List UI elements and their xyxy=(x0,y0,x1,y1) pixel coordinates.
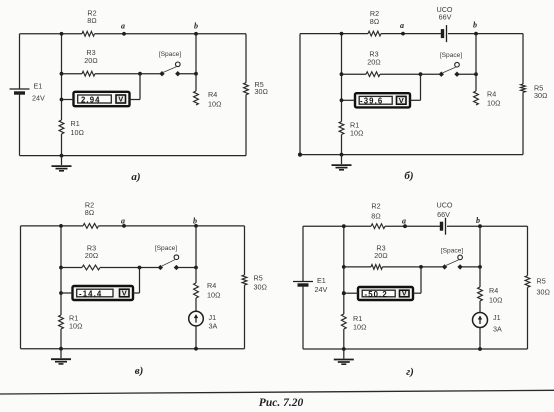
wire top left segment xyxy=(21,225,84,227)
svg-text:30Ω: 30Ω xyxy=(537,288,551,297)
wire bottom xyxy=(20,155,247,157)
wire R4 to J1 xyxy=(195,298,197,311)
wire inner vertical lower xyxy=(60,134,64,158)
svg-text:20Ω: 20Ω xyxy=(85,251,99,260)
svg-text:b: b xyxy=(473,21,477,30)
label g) xyxy=(406,366,414,378)
wire voltmeter right lead xyxy=(413,267,421,293)
wire top right segment xyxy=(95,33,247,35)
resistor R1 xyxy=(339,121,363,138)
voltage source UCO xyxy=(437,5,453,42)
wire right side upper xyxy=(527,226,529,275)
wire left side upper xyxy=(19,34,21,89)
svg-text:V: V xyxy=(118,95,123,104)
wire switch to node xyxy=(462,265,482,269)
svg-text:10Ω: 10Ω xyxy=(69,322,83,331)
voltmeter U1 xyxy=(358,287,413,300)
resistor R2 xyxy=(368,9,381,36)
wire right side lower xyxy=(527,287,529,349)
wire right side upper xyxy=(522,34,524,84)
svg-text:8Ω: 8Ω xyxy=(85,208,95,217)
wire voltmeter left lead xyxy=(342,99,356,101)
circuit v) bottom-left xyxy=(21,201,268,378)
svg-text:J1: J1 xyxy=(493,313,501,322)
resistor R3 xyxy=(82,48,98,76)
wire R3 row left xyxy=(342,73,367,75)
svg-text:24V: 24V xyxy=(32,94,45,103)
svg-text:20Ω: 20Ω xyxy=(84,56,98,65)
resistor R2 xyxy=(371,202,385,229)
resistor R4 xyxy=(194,281,221,300)
svg-text:10Ω: 10Ω xyxy=(489,296,503,305)
wire R4 to J1 xyxy=(479,301,481,313)
svg-text:E1: E1 xyxy=(317,276,326,285)
wire inner vertical upper xyxy=(342,224,346,314)
wire voltmeter right lead xyxy=(130,74,141,100)
svg-text:[Space]: [Space] xyxy=(155,245,178,252)
wire voltmeter left lead xyxy=(61,292,73,294)
resistor R3 xyxy=(371,244,388,270)
wire voltmeter left lead xyxy=(342,291,358,295)
wire R3 row left xyxy=(344,266,371,268)
resistor R5 xyxy=(525,276,550,297)
svg-text:20Ω: 20Ω xyxy=(367,58,381,67)
resistor R2 xyxy=(83,201,99,229)
svg-text:10Ω: 10Ω xyxy=(71,128,85,137)
label a) xyxy=(131,171,140,183)
svg-text:b: b xyxy=(193,217,197,226)
svg-text:10Ω: 10Ω xyxy=(207,291,221,300)
svg-text:a: a xyxy=(402,217,406,226)
svg-text:8Ω: 8Ω xyxy=(371,212,381,221)
node b xyxy=(476,216,482,228)
svg-text:R1: R1 xyxy=(71,119,80,128)
node b xyxy=(473,21,478,36)
svg-text:3A: 3A xyxy=(209,322,218,331)
svg-text:a: a xyxy=(400,21,404,30)
svg-text:2.94: 2.94 xyxy=(81,95,101,104)
svg-text:-14.4: -14.4 xyxy=(79,290,102,299)
wire right side lower xyxy=(245,95,247,156)
svg-text:[Space]: [Space] xyxy=(159,51,182,58)
voltmeter U1 xyxy=(73,286,134,300)
svg-text:10Ω: 10Ω xyxy=(208,100,222,109)
svg-text:30Ω: 30Ω xyxy=(534,91,548,100)
svg-text:а): а) xyxy=(131,171,140,183)
wire inner vertical lower xyxy=(340,135,344,157)
wire bottom xyxy=(303,348,528,350)
wire top segment 3 xyxy=(447,225,528,227)
wire voltmeter right lead xyxy=(410,74,421,100)
resistor R4 xyxy=(478,286,503,305)
current source J1 xyxy=(189,311,218,330)
wire inner vertical upper xyxy=(59,224,63,315)
svg-text:[Space]: [Space] xyxy=(440,52,463,59)
svg-text:E1: E1 xyxy=(34,82,43,91)
circuit a) top-left xyxy=(10,9,269,184)
node a xyxy=(121,22,126,36)
resistor R4 xyxy=(194,90,222,109)
wire bottom xyxy=(21,348,245,350)
svg-text:Рис. 7.20: Рис. 7.20 xyxy=(259,397,304,409)
svg-text:б): б) xyxy=(404,170,413,182)
wire voltmeter right lead xyxy=(133,268,140,294)
ground xyxy=(332,155,352,170)
svg-text:в): в) xyxy=(135,365,144,377)
battery E1 xyxy=(293,276,327,294)
svg-text:66V: 66V xyxy=(439,13,452,22)
wire switch to node xyxy=(180,72,198,76)
wire voltmeter left lead xyxy=(62,99,74,101)
resistor R3 xyxy=(82,244,100,270)
wire top segment 2 xyxy=(385,225,440,227)
wire node b vertical xyxy=(195,34,197,91)
wire top right segment xyxy=(99,225,245,227)
wire right side lower xyxy=(522,92,524,154)
svg-text:3A: 3A xyxy=(493,325,502,334)
switch [Space] xyxy=(439,52,463,77)
wire node b vertical xyxy=(475,34,477,91)
wire left side upper xyxy=(302,226,304,281)
svg-text:a: a xyxy=(121,217,125,226)
wire R3 row to switch xyxy=(380,72,439,76)
wire switch to node xyxy=(459,72,478,76)
wire bottom xyxy=(298,153,523,157)
switch [Space] xyxy=(155,245,179,270)
resistor R1 xyxy=(59,314,83,331)
svg-text:R4: R4 xyxy=(487,90,496,99)
svg-text:V: V xyxy=(122,288,127,297)
svg-text:b: b xyxy=(194,22,198,31)
svg-text:R5: R5 xyxy=(254,274,263,283)
svg-text:R5: R5 xyxy=(537,277,546,286)
svg-text:20Ω: 20Ω xyxy=(374,251,388,260)
wire node b vertical xyxy=(195,226,197,283)
svg-text:30Ω: 30Ω xyxy=(254,283,268,292)
svg-text:8Ω: 8Ω xyxy=(370,17,380,26)
resistor R2 xyxy=(82,9,97,37)
voltmeter U1 xyxy=(74,92,130,106)
wire left side xyxy=(20,226,22,349)
svg-text:10Ω: 10Ω xyxy=(350,129,364,138)
wire R3 row left xyxy=(62,73,83,75)
ground xyxy=(51,349,71,364)
svg-text:R4: R4 xyxy=(489,286,498,295)
wire left side lower xyxy=(19,94,21,156)
current source J1 xyxy=(473,313,502,334)
wire left side lower xyxy=(302,286,304,350)
wire inner vertical upper xyxy=(340,32,344,122)
ground xyxy=(52,156,72,171)
svg-text:R4: R4 xyxy=(207,281,216,290)
wire inner vertical upper xyxy=(60,32,64,120)
wire top segment 3 xyxy=(448,33,523,35)
wire inner vertical lower xyxy=(59,329,63,351)
resistor R1 xyxy=(341,314,366,332)
switch [Space] xyxy=(441,247,464,269)
wire R3 row to switch xyxy=(95,72,160,76)
svg-text:24V: 24V xyxy=(315,285,328,294)
svg-text:UCO: UCO xyxy=(437,201,453,210)
caption Fig 7.20 xyxy=(259,397,304,409)
svg-text:8Ω: 8Ω xyxy=(87,16,97,25)
svg-text:66V: 66V xyxy=(437,210,450,219)
wire J1 to bottom xyxy=(478,328,482,351)
svg-text:30Ω: 30Ω xyxy=(255,87,269,96)
resistor R4 xyxy=(474,90,501,108)
resistor R5 xyxy=(521,84,548,101)
resistor R5 xyxy=(242,274,267,292)
caption rule xyxy=(0,390,554,394)
node a xyxy=(121,217,126,228)
svg-text:10Ω: 10Ω xyxy=(353,323,367,332)
svg-text:г): г) xyxy=(406,366,414,378)
node a xyxy=(402,217,407,229)
wire right side lower xyxy=(244,285,246,349)
ground xyxy=(334,349,354,364)
node b xyxy=(194,22,198,36)
circuit g) bottom-right xyxy=(293,201,550,379)
voltage source UCO xyxy=(437,201,453,235)
svg-text:a: a xyxy=(121,22,125,31)
wire inner vertical lower xyxy=(342,329,346,351)
wire right side upper xyxy=(244,226,246,275)
wire top left segment xyxy=(20,33,83,35)
wire R3 row to switch xyxy=(100,266,158,270)
resistor R1 xyxy=(59,119,84,137)
wire top segment 1 xyxy=(303,225,371,227)
wire left side xyxy=(299,34,301,155)
resistor R3 xyxy=(366,50,381,77)
switch [Space] xyxy=(159,51,182,76)
svg-text:10Ω: 10Ω xyxy=(487,99,501,108)
label v) xyxy=(135,365,144,377)
wire R3 row to switch xyxy=(383,265,443,269)
wire right side upper xyxy=(245,34,247,83)
wire node b vertical xyxy=(479,226,481,287)
svg-text:R4: R4 xyxy=(208,90,217,99)
label b) xyxy=(404,170,413,182)
svg-text:[Space]: [Space] xyxy=(441,247,464,254)
svg-text:V: V xyxy=(402,288,407,297)
circuit b) top-right xyxy=(298,5,548,182)
voltmeter U1 xyxy=(355,93,410,107)
resistor R5 xyxy=(244,80,268,96)
node b xyxy=(193,217,198,228)
wire top segment 2 xyxy=(381,33,441,35)
svg-text:V: V xyxy=(399,96,404,105)
wire top segment 1 xyxy=(300,33,368,35)
svg-text:-50.2: -50.2 xyxy=(365,290,388,299)
wire switch to node xyxy=(178,266,198,270)
battery E1 xyxy=(10,82,45,103)
svg-text:R2: R2 xyxy=(371,202,380,211)
svg-text:-39.6: -39.6 xyxy=(360,97,383,106)
node a xyxy=(400,21,405,36)
svg-text:b: b xyxy=(476,216,480,225)
wire R3 row left xyxy=(61,267,82,269)
wire J1 to bottom xyxy=(194,326,198,351)
